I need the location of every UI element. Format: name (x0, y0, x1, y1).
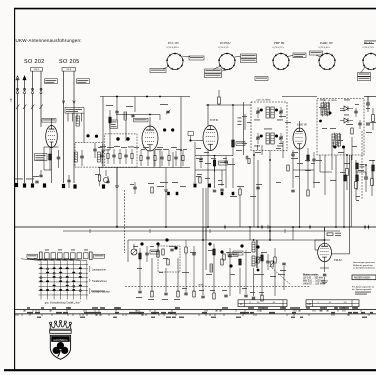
svg-text:SO 205: SO 205 (59, 59, 80, 65)
svg-text:FB: FB (10, 98, 13, 101)
coil L1 (75, 152, 78, 162)
svg-text:240 Ω: 240 Ω (66, 69, 71, 71)
capacitor C18 (366, 96, 370, 112)
capacitor C23 (218, 184, 224, 191)
svg-text:6,3V 0,45A: 6,3V 0,45A (319, 46, 330, 49)
crest clover (53, 342, 69, 357)
resistor R22 (221, 259, 223, 265)
measuring dot T1a (260, 109, 263, 112)
gnd symbols (115, 186, 168, 227)
capacitor C2 (80, 150, 84, 166)
wire V4 top (299, 121, 301, 128)
wire tuner down b (165, 168, 167, 191)
label box below socket2 b (205, 74, 222, 78)
label box below socket5 a (358, 73, 371, 77)
wire drops UKW (110, 97, 173, 168)
svg-text:gez. Fachabteilung GmbH.„Aus“: gez. Fachabteilung GmbH.„Aus“ (45, 301, 82, 304)
tube V5 EM84 (318, 243, 332, 261)
junction dots UKW (102, 96, 182, 153)
wire top bus right (282, 96, 376, 98)
dashed divider vertical (124, 190, 126, 253)
keyboard bracket left (40, 252, 43, 260)
terminal row mid extra (213, 190, 309, 196)
capacitor C8 (199, 156, 202, 168)
measuring dot T2a (260, 135, 263, 138)
border left line (14, 8, 16, 371)
tube socket U5 label (363, 41, 374, 49)
tube socket U3 label (273, 41, 285, 49)
label box Dipol (65, 108, 84, 114)
wire block join (44, 147, 59, 170)
label box near socket4 (310, 51, 323, 55)
label tube V3 (209, 119, 219, 122)
label text socket5 edge (364, 41, 376, 44)
wire right col drops (0, 0, 1, 1)
crest shield (50, 335, 70, 359)
IF transformer T3 (321, 102, 329, 117)
wire ECH riser left (207, 105, 209, 126)
wire antenna drop 4 (40, 94, 42, 127)
wire ECH top bus (206, 104, 251, 106)
wire UKW bottom rail (98, 167, 190, 169)
svg-text:ZF 10,7MHz: ZF 10,7MHz (324, 99, 337, 102)
trimmer C10 (256, 107, 260, 118)
wire antenna drop 3 (32, 94, 34, 183)
resistor R29 (157, 246, 159, 257)
resistor R11 (372, 108, 375, 130)
label box R5 (236, 142, 245, 146)
bus tick marks 2 (90, 229, 285, 233)
smudge left cluster text (15, 178, 34, 181)
smudge UKW top text (106, 104, 168, 107)
IF transformer T2 coils (266, 133, 274, 144)
svg-text:ECC 85: ECC 85 (167, 41, 179, 45)
wire ECH drop right2 (203, 188, 206, 240)
potentiometer P1 (131, 244, 137, 255)
label tube V5 (333, 259, 342, 262)
tube socket U3 (272, 53, 290, 70)
circle symbol on bus (103, 170, 108, 183)
text notes right (353, 262, 376, 269)
capacitor C29 (282, 263, 285, 265)
wire SO202 right drop (40, 71, 42, 91)
terminal T1 (15, 183, 18, 187)
resistor R10 (351, 128, 353, 134)
wire ECH drop mid (207, 150, 209, 227)
wire SO205 right drop (73, 71, 76, 183)
tube V4 EABC80 (293, 128, 306, 149)
capacitor C24 (256, 187, 259, 189)
svg-text:Lautsprecher: Lautsprecher (92, 269, 106, 272)
UKW resistor group (140, 150, 184, 166)
coil L2 (124, 112, 127, 120)
smudge box B vals (320, 100, 350, 129)
label box R1 value (35, 154, 48, 161)
connector plug row (17, 88, 43, 93)
measuring dot T1b (275, 109, 278, 112)
box Aenderungen (352, 275, 376, 280)
capacitor C21 (33, 176, 39, 183)
coil L3 (98, 152, 101, 162)
smudge T1 values (254, 119, 283, 122)
resistor R33 (356, 170, 359, 190)
dashed IF transformer box A (251, 102, 287, 151)
keyboard button labels (45, 249, 88, 252)
terminal T4 (43, 183, 46, 187)
wire h connectors (103, 150, 332, 172)
resistor R3 (98, 168, 100, 187)
resistor R21 (213, 244, 215, 262)
wire UKW top bus (100, 96, 190, 98)
svg-text:6,3V 0,76A: 6,3V 0,76A (363, 46, 374, 49)
svg-text:UKW-...: UKW-... (198, 284, 206, 286)
wire left tube top (51, 118, 53, 125)
diode D1 (340, 106, 353, 111)
terminal T6 (194, 184, 197, 188)
wire SO202 left drop (32, 71, 34, 91)
measuring dot T2b (275, 135, 278, 138)
wires below Dipol box (68, 113, 82, 121)
resistor R4 (218, 90, 221, 105)
AF bottom row extras (184, 291, 247, 297)
label box below socket5 b (358, 77, 371, 81)
tiny marks right (356, 196, 360, 201)
dial scale ruler 1 (15, 307, 376, 311)
resistor R31 (356, 163, 365, 169)
label box bus a (228, 253, 238, 257)
keyboard right brace b (89, 279, 107, 283)
wire UKW left riser (102, 97, 104, 153)
crest crown (49, 320, 71, 333)
wire antenna drop 2 (24, 94, 26, 183)
resistor R23 (239, 259, 241, 265)
resistor R18 (139, 248, 141, 266)
svg-text:6,3V 0,27A: 6,3V 0,27A (273, 46, 284, 49)
svg-text:der Spannungsquelle: der Spannungsquelle (352, 288, 372, 291)
svg-text:EM 84: EM 84 (333, 259, 342, 262)
terminal T5 (102, 176, 110, 189)
label box above left tube (42, 119, 56, 123)
wire drops EABC (293, 155, 320, 227)
smudge UKW values (100, 146, 177, 148)
resistor R28 (0, 0, 1, 1)
measuring point M5 (208, 242, 232, 267)
wire dipol drop (76, 113, 84, 143)
label box UKW unit (134, 118, 149, 122)
resistor R13 (355, 160, 358, 200)
wire AF verticals (214, 262, 284, 296)
dial pointer box FB (306, 300, 359, 307)
wire SO205 left drop (62, 71, 65, 183)
dial pointer box FI (238, 300, 287, 307)
resistor R12 (346, 155, 349, 190)
keyboard matrix grid (39, 261, 89, 300)
wire tube V2 top (116, 115, 160, 127)
text misc above ruler (91, 290, 105, 293)
label box UKW-Antenne 2 (77, 79, 90, 84)
coupling coil small (210, 264, 213, 272)
svg-text:an der Antennenbuchse: an der Antennenbuchse (353, 266, 376, 269)
svg-text:FB: FB (308, 302, 312, 306)
IF transformer T1 coils (266, 107, 274, 118)
svg-text:6,3V 0,435A: 6,3V 0,435A (167, 46, 180, 49)
label box antenna SO202 (31, 68, 43, 72)
potentiometer P2 (256, 257, 261, 271)
antenna dipole arrow B (23, 76, 26, 91)
wire AF rail drop left (127, 240, 129, 262)
svg-text:ÄNDERUNGEN: ÄNDERUNGEN (354, 277, 371, 280)
tube V1 (46, 126, 58, 148)
contact arrows on drops (16, 105, 43, 110)
keyboard right brace c (89, 288, 110, 294)
wire V4 bottom (299, 149, 301, 170)
measuring dots box B (319, 112, 345, 149)
smudge AF extras (182, 287, 247, 290)
svg-text:FI: FI (240, 302, 243, 306)
tube socket U5 (362, 53, 376, 70)
smudge T2 label (264, 128, 272, 131)
resistor R19 (162, 249, 164, 255)
label box AF b (233, 251, 243, 255)
capacitor C4 (115, 97, 118, 121)
smudge under tuner (160, 181, 178, 184)
AF right bottom (250, 292, 264, 301)
wire drops UKW2 (103, 150, 181, 227)
resistor R17 (223, 254, 225, 260)
dashed divider horizontal (125, 286, 310, 288)
tube V2 ECC85 (142, 126, 158, 151)
capacitor C14 (291, 150, 294, 162)
svg-text:SO 202: SO 202 (24, 59, 45, 65)
text model frequencies (303, 274, 326, 286)
capacitor C26 (170, 249, 173, 251)
svg-text:UKW-Antennenausführungen:: UKW-Antennenausführungen: (16, 38, 82, 43)
wire antenna drop 1 (17, 94, 19, 183)
wire drops IF (245, 114, 283, 227)
label box near socket2 right b (241, 59, 257, 63)
capacitor C28 (266, 254, 269, 270)
svg-text:Fm-Spannungswerte an: Fm-Spannungswerte an (352, 285, 375, 288)
label box UKW-Antenne (45, 79, 58, 84)
svg-text:Meßwerte geprüft mit: Meßwerte geprüft mit (353, 264, 373, 267)
capacitor C7 (93, 143, 96, 158)
resistor R14 (371, 170, 374, 196)
label IF box A (256, 99, 271, 102)
measuring point M1 (86, 134, 129, 141)
terminal T3 (31, 183, 34, 187)
label box AF a (150, 250, 159, 254)
label box near socket1 left (150, 69, 166, 73)
bus tick marks (224, 225, 311, 229)
svg-text:240 Ω: 240 Ω (34, 69, 39, 71)
wire EM bottom (320, 262, 329, 272)
AF bottom components (138, 291, 179, 297)
wire left tube bottom (51, 148, 53, 184)
resistor R26 (0, 0, 1, 1)
wire drops ECH (215, 158, 241, 227)
trimmer C6 (166, 110, 170, 115)
wire right connector (357, 172, 366, 176)
capacitor C17 (358, 120, 361, 129)
bus line lower (63, 230, 340, 232)
capacitor C16 (354, 108, 357, 117)
resistor R9 (307, 148, 309, 168)
wire box B drop a (324, 155, 326, 170)
smudge right lower (0, 0, 1, 1)
measuring point M7 (156, 242, 243, 249)
EM bottom bits (321, 274, 328, 284)
keyboard buttons row (45, 253, 89, 259)
output transformer (252, 240, 258, 268)
junction dots UKW extra (149, 96, 161, 116)
resistor R27 (0, 0, 1, 1)
wire OT drops (254, 252, 263, 296)
resistor R20 (163, 258, 169, 265)
capacitor C9 (224, 156, 227, 170)
resistor R8 (287, 165, 289, 171)
AF mid bottom (199, 290, 228, 299)
EM84 frame wire (315, 227, 350, 254)
wire IF A out left (253, 151, 255, 228)
label box keyboard left (27, 254, 38, 258)
terminal T7 (205, 178, 211, 187)
wire socket2 stubs (213, 57, 241, 72)
keyboard contact marks (39, 267, 81, 291)
wire IF A out right (269, 151, 271, 241)
capacitor C31 (192, 246, 195, 262)
text notes right 2 (352, 285, 375, 291)
tube socket U2 label (219, 41, 232, 49)
svg-text:6,3V 0,3A: 6,3V 0,3A (219, 46, 229, 49)
smudge OT vals (258, 270, 286, 277)
label box UKW input (110, 120, 118, 128)
svg-text:2.ZF 10,7MHz: 2.ZF 10,7MHz (256, 99, 271, 102)
wire EM top (325, 227, 341, 243)
UKW capacitor group (100, 149, 133, 164)
smudge T2 values (254, 145, 283, 148)
tube socket U4 (318, 53, 336, 70)
capacitor C20 (364, 165, 368, 192)
text above ruler right (355, 292, 371, 295)
svg-text:ECH 81: ECH 81 (209, 119, 219, 122)
switch symbol boxes (0, 0, 1, 1)
resistor R5 (232, 105, 235, 156)
label box below socket2 a (205, 69, 222, 73)
bus junction marks right (364, 225, 369, 229)
label box near socket2b (255, 77, 268, 81)
tube socket U1 label (167, 41, 180, 49)
tube socket U1 (166, 53, 183, 70)
wire socket4 stubs (316, 55, 321, 57)
capacitor C15 (312, 152, 315, 168)
svg-text:UKW 87 ... 100 MHz: UKW 87 ... 100 MHz (303, 283, 326, 286)
resistor R1 (49, 147, 52, 170)
resistor R16 (239, 186, 241, 195)
bus line upper (15, 226, 376, 228)
resistor R24 (261, 255, 263, 261)
border bottom line (4, 369, 376, 371)
capacitor C3 (39, 170, 42, 177)
diode D2 (340, 118, 353, 123)
wire socket5 stubs (361, 67, 365, 73)
capacitor C1 (57, 150, 61, 168)
svg-text:EABC 80: EABC 80 (319, 41, 333, 45)
resistor R25 (274, 248, 276, 272)
capacitor C22 (133, 182, 136, 194)
keyboard bracket right (90, 252, 93, 260)
label box keyboard right (94, 254, 105, 258)
wire AF top rail (128, 239, 330, 241)
smudge AF bottom (136, 297, 180, 300)
label box near socket1 right (189, 56, 204, 60)
junction terminal cluster 1 (62, 175, 77, 189)
wire box B drop b (343, 148, 345, 227)
wire double vertical right (350, 155, 352, 227)
smudge bus labels (230, 195, 256, 198)
trimmer C13 (279, 133, 283, 144)
terminal cluster mid (167, 192, 178, 195)
keyboard caption (45, 301, 82, 304)
resistor R34 (372, 160, 375, 186)
dashed box UKW lower right (105, 134, 137, 167)
keyboard wire stubs (21, 259, 87, 261)
keyboard right brace a (89, 266, 106, 272)
capacitor C30 (0, 0, 1, 1)
wire AF drops (140, 258, 178, 292)
wire V3 left lead (192, 140, 203, 142)
svg-text:GRUNDIG: GRUNDIG (53, 338, 68, 342)
resistor R7 (196, 176, 201, 183)
dashed ratio detector box B (317, 99, 364, 156)
wire lower drops (203, 227, 325, 240)
svg-text:Tonabnehmer: Tonabnehmer (92, 280, 107, 283)
tube socket U2 (218, 53, 235, 70)
label SO 202 (24, 59, 45, 65)
wire UKW right riser (180, 97, 182, 151)
svg-text:EBF 89: EBF 89 (273, 41, 285, 45)
junction dots right (346, 154, 367, 166)
label SO 205 (59, 59, 80, 65)
label box near socket2 right a (241, 54, 257, 58)
wire tuner down a (116, 168, 118, 187)
smudge mid labels (196, 148, 344, 161)
label box near socket3 (293, 53, 306, 58)
tube socket U4 label (319, 41, 333, 49)
trimmer C11 (256, 133, 260, 144)
measuring point M2 (163, 128, 174, 131)
resistor R2 (109, 110, 111, 123)
dashed drop from box B (361, 131, 363, 200)
wire riser right edge (367, 97, 369, 104)
IF transformer T4 (332, 133, 340, 148)
junction dot V3 (214, 155, 216, 157)
label FB rotated (10, 98, 13, 101)
junction bus dots (116, 226, 345, 228)
dashed diagonal from P3 (272, 268, 291, 285)
dial scale ruler 2 (15, 312, 376, 318)
svg-text:ECH 81: ECH 81 (219, 41, 231, 45)
smudge right col vals (344, 160, 375, 171)
wire ECH drop left (194, 142, 196, 183)
resistor R32 (340, 172, 346, 181)
potentiometer P3 (270, 261, 275, 267)
antenna dipole arrow A (16, 76, 19, 91)
dashed box UKW lower left (75, 143, 103, 168)
measuring point M3 (140, 242, 143, 245)
label box antenna SO205 (62, 68, 76, 72)
capacitor C19 (366, 123, 370, 125)
label tube V4 (296, 124, 307, 127)
